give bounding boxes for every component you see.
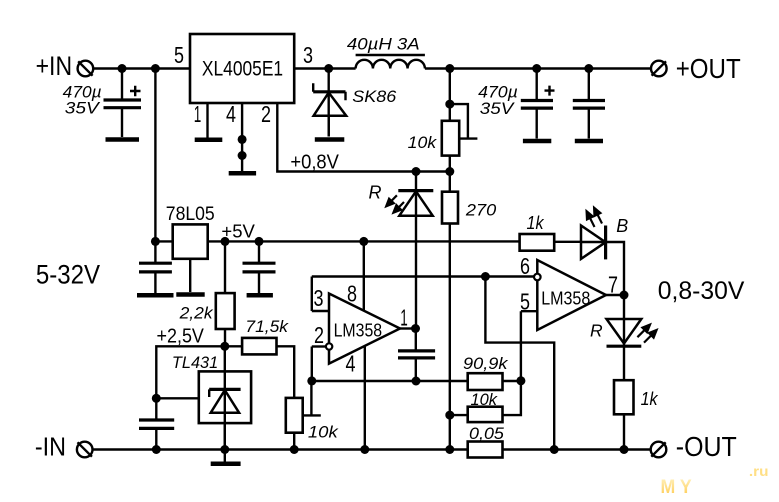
svg-text:1k: 1k bbox=[527, 212, 546, 233]
svg-text:2,2k: 2,2k bbox=[179, 304, 215, 323]
svg-text:2: 2 bbox=[261, 101, 271, 127]
svg-text:5: 5 bbox=[174, 42, 184, 68]
svg-text:1: 1 bbox=[194, 101, 202, 127]
svg-text:.ru: .ru bbox=[749, 463, 769, 479]
svg-text:3: 3 bbox=[303, 42, 313, 68]
svg-text:10k: 10k bbox=[471, 390, 499, 409]
svg-text:1k: 1k bbox=[641, 388, 660, 409]
svg-text:XL4005E1: XL4005E1 bbox=[202, 58, 283, 81]
svg-text:R: R bbox=[369, 183, 382, 203]
svg-text:TL431: TL431 bbox=[172, 353, 218, 372]
svg-text:71,5k: 71,5k bbox=[245, 317, 289, 336]
svg-text:35V: 35V bbox=[480, 99, 515, 118]
svg-text:2: 2 bbox=[314, 322, 324, 348]
svg-text:5-32V: 5-32V bbox=[36, 259, 100, 289]
svg-text:SK86: SK86 bbox=[352, 87, 397, 106]
svg-text:10k: 10k bbox=[408, 133, 438, 152]
svg-text:+2,5V: +2,5V bbox=[157, 324, 205, 347]
svg-text:35V: 35V bbox=[65, 98, 101, 117]
svg-text:LM358: LM358 bbox=[541, 289, 590, 309]
svg-text:6: 6 bbox=[520, 253, 530, 279]
svg-text:-IN: -IN bbox=[35, 431, 66, 461]
svg-text:0,05: 0,05 bbox=[469, 424, 504, 443]
svg-text:+OUT: +OUT bbox=[676, 53, 741, 84]
svg-text:R: R bbox=[590, 320, 603, 340]
svg-text:40µH 3A: 40µH 3A bbox=[347, 34, 420, 53]
svg-text:0,8-30V: 0,8-30V bbox=[658, 277, 745, 305]
svg-text:B: B bbox=[616, 216, 628, 236]
svg-text:4: 4 bbox=[226, 101, 236, 127]
svg-text:+0,8V: +0,8V bbox=[290, 150, 339, 173]
svg-text:LM358: LM358 bbox=[334, 321, 383, 341]
svg-text:1: 1 bbox=[400, 304, 408, 330]
svg-text:+5V: +5V bbox=[221, 221, 255, 242]
svg-text:7: 7 bbox=[608, 272, 618, 298]
svg-text:M Y: M Y bbox=[661, 476, 692, 498]
svg-text:3: 3 bbox=[314, 285, 324, 311]
svg-text:10k: 10k bbox=[308, 423, 339, 442]
svg-text:8: 8 bbox=[347, 281, 357, 307]
svg-text:90,9k: 90,9k bbox=[463, 354, 509, 373]
svg-text:4: 4 bbox=[346, 351, 356, 377]
svg-text:5: 5 bbox=[520, 289, 530, 315]
svg-text:-OUT: -OUT bbox=[676, 431, 737, 462]
svg-text:270: 270 bbox=[465, 201, 497, 220]
svg-text:+IN: +IN bbox=[36, 51, 73, 81]
svg-text:78L05: 78L05 bbox=[166, 203, 215, 225]
